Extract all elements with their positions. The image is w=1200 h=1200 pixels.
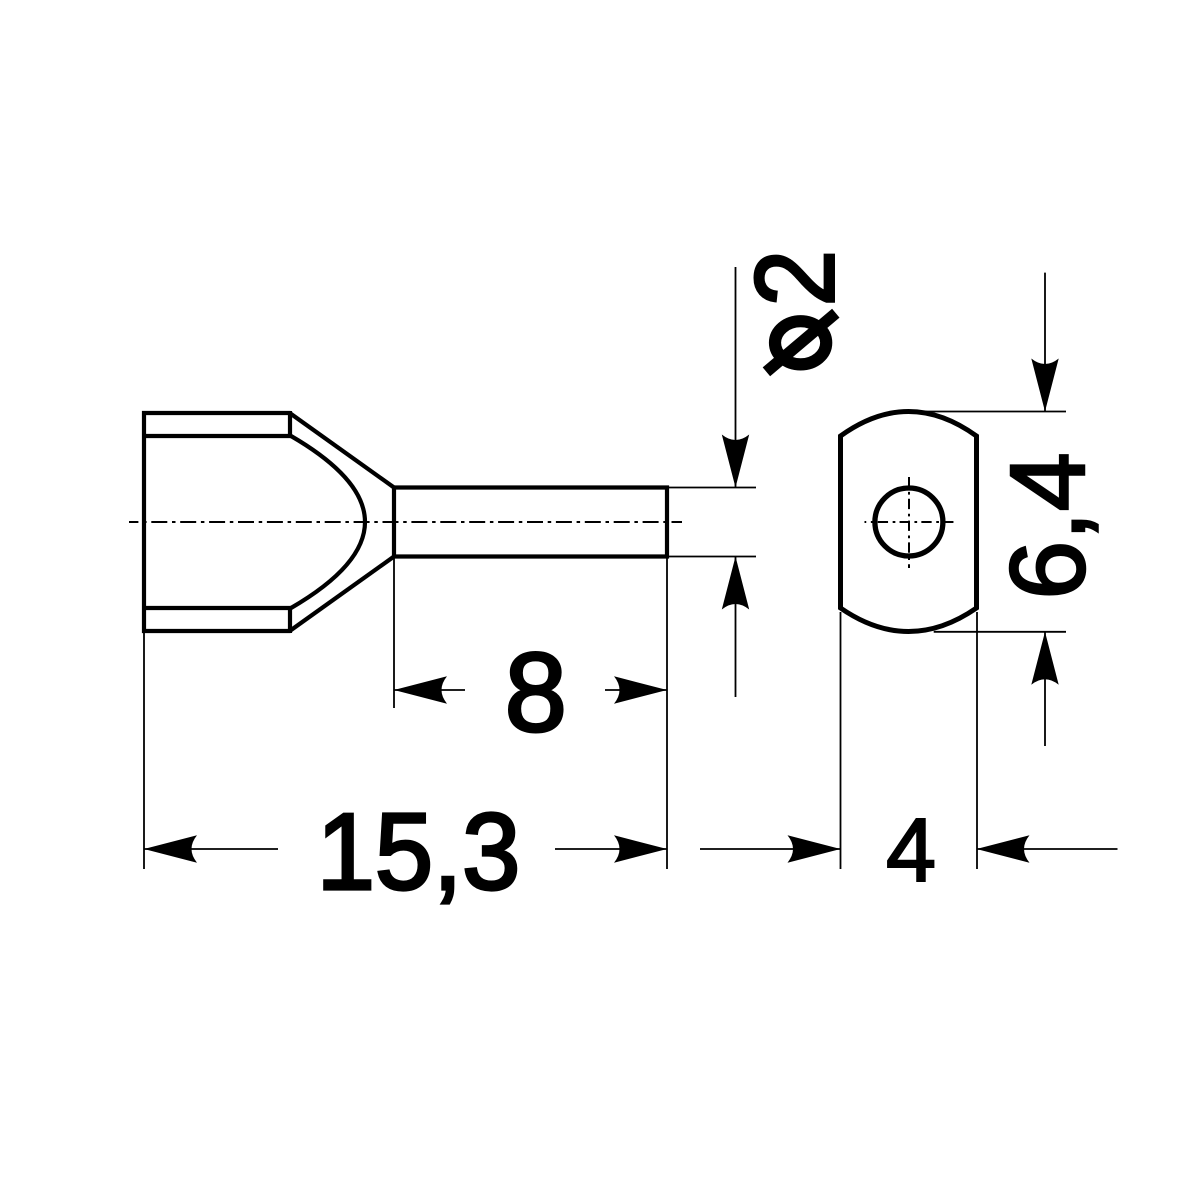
collar end face top	[288, 411, 292, 438]
extension lines for diameter 2	[669, 488, 756, 557]
extension line below tube left end	[393, 558, 395, 708]
extension line top of front view	[920, 411, 1066, 413]
collar end face bottom	[288, 606, 292, 633]
thin extension / dimension line work	[144, 267, 756, 869]
dimension text diameter 2 : diameter symbol circle	[775, 321, 826, 364]
tube outline	[394, 485, 667, 558]
extension line bottom of front view	[934, 631, 1066, 633]
collar inner wall bottom	[144, 606, 291, 610]
svg-text:4: 4	[886, 801, 936, 901]
thin lines of right-side dimensions	[700, 273, 1118, 869]
dimension line 8	[394, 689, 667, 691]
dimension text diameter 2 : diameter symbol slash	[766, 313, 835, 372]
dimension line 15,3	[144, 848, 667, 850]
crosshair centerlines of hole	[865, 477, 955, 568]
arrowheads dimension 4	[788, 835, 841, 862]
extension line below collar left	[143, 633, 145, 869]
extension line below tube right end	[666, 558, 668, 869]
svg-text:15,3: 15,3	[317, 790, 521, 912]
wire hole circle	[875, 488, 943, 556]
svg-text:6,4: 6,4	[989, 452, 1107, 599]
collar inner wall top	[144, 434, 291, 438]
arrowheads dimension 15,3	[144, 835, 197, 862]
extension line below front view left	[840, 612, 842, 869]
dimension line 6,4	[1044, 273, 1046, 746]
dimension line 4	[700, 848, 1118, 850]
arrowheads dimension 8	[394, 676, 447, 703]
funnel inner arc	[291, 436, 365, 608]
svg-text:8: 8	[505, 630, 567, 755]
collar outer outline	[144, 413, 290, 631]
funnel outer slope top	[289, 413, 394, 488]
extension line below front view right	[976, 612, 978, 869]
front view outline	[841, 412, 977, 632]
funnel outer slope bottom	[289, 557, 394, 632]
dimension line diameter 2	[735, 267, 737, 697]
centerline of side view	[129, 521, 682, 523]
arrowheads dimension 6,4	[1031, 359, 1058, 412]
arrowheads dimension diameter 2	[722, 435, 749, 488]
svg-text:2: 2	[732, 250, 858, 307]
